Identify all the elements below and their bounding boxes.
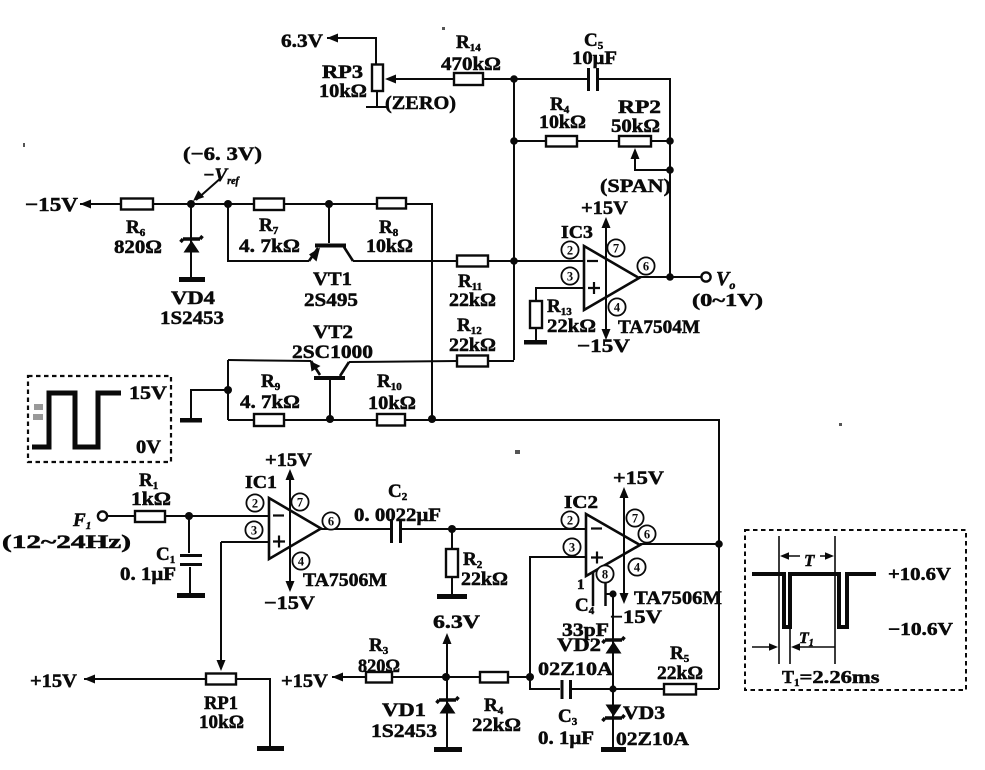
svg-text:2: 2: [252, 497, 258, 511]
svg-text:RP1: RP1: [204, 693, 238, 714]
svg-text:(SPAN): (SPAN): [600, 176, 671, 197]
svg-text:VD1: VD1: [382, 700, 426, 721]
svg-text:4: 4: [634, 561, 641, 575]
svg-text:2S495: 2S495: [304, 290, 358, 311]
svg-text:3: 3: [567, 270, 573, 284]
svg-text:8: 8: [602, 568, 608, 582]
svg-text:0V: 0V: [136, 437, 161, 458]
svg-text:IC3: IC3: [561, 222, 593, 242]
svg-text:6.3V: 6.3V: [281, 31, 323, 52]
svg-text:7: 7: [632, 512, 638, 526]
svg-text:−10.6V: −10.6V: [888, 619, 953, 639]
svg-text:(0~1V): (0~1V): [692, 290, 763, 311]
svg-text:RP2: RP2: [618, 97, 661, 118]
svg-text:3: 3: [251, 524, 257, 538]
svg-text:10kΩ: 10kΩ: [368, 393, 416, 414]
svg-text:TA7506M: TA7506M: [303, 570, 387, 591]
svg-text:22kΩ: 22kΩ: [657, 663, 703, 684]
svg-text:−15V: −15V: [577, 336, 630, 357]
svg-text:4: 4: [298, 555, 305, 569]
svg-text:7: 7: [297, 496, 303, 510]
svg-text:+15V: +15V: [265, 450, 312, 471]
svg-text:VD3: VD3: [623, 703, 665, 724]
svg-text:RP3: RP3: [322, 62, 363, 83]
svg-text:22kΩ: 22kΩ: [472, 715, 521, 736]
svg-text:TA7504M: TA7504M: [618, 317, 700, 338]
svg-text:02Z10A: 02Z10A: [616, 729, 689, 750]
svg-text:VT1: VT1: [313, 269, 352, 290]
svg-text:6.3V: 6.3V: [433, 612, 480, 633]
svg-text:10kΩ: 10kΩ: [366, 236, 413, 257]
svg-text:7: 7: [613, 242, 619, 256]
svg-text:820Ω: 820Ω: [114, 237, 162, 258]
svg-text:10kΩ: 10kΩ: [199, 712, 244, 733]
svg-text:22kΩ: 22kΩ: [547, 316, 596, 337]
svg-text:6: 6: [643, 260, 649, 274]
svg-text:10kΩ: 10kΩ: [319, 81, 367, 102]
svg-text:T: T: [804, 551, 815, 570]
svg-text:IC1: IC1: [245, 472, 277, 492]
svg-text:−15V: −15V: [610, 607, 662, 628]
svg-text:2: 2: [567, 514, 573, 528]
svg-text:1kΩ: 1kΩ: [131, 489, 171, 510]
svg-text:IC2: IC2: [564, 492, 598, 512]
svg-text:2: 2: [567, 244, 573, 258]
svg-text:(ZERO): (ZERO): [385, 93, 456, 114]
svg-text:+15V: +15V: [281, 671, 328, 692]
svg-text:+10.6V: +10.6V: [888, 564, 951, 584]
svg-text:4. 7kΩ: 4. 7kΩ: [239, 236, 300, 257]
svg-text:1S2453: 1S2453: [160, 308, 224, 329]
svg-text:0. 1μF: 0. 1μF: [538, 728, 594, 749]
svg-text:820Ω: 820Ω: [358, 656, 400, 677]
svg-text:50kΩ: 50kΩ: [611, 116, 660, 137]
svg-text:+15V: +15V: [30, 671, 77, 692]
svg-text:22kΩ: 22kΩ: [461, 569, 508, 590]
svg-text:22kΩ: 22kΩ: [449, 335, 496, 356]
svg-text:0. 1μF: 0. 1μF: [120, 564, 176, 585]
svg-text:−15V: −15V: [25, 194, 79, 216]
svg-text:−15V: −15V: [264, 593, 315, 614]
svg-text:1S2453: 1S2453: [371, 721, 437, 742]
svg-text:+15V: +15V: [613, 468, 664, 489]
svg-text:6: 6: [328, 515, 334, 529]
svg-text:2SC1000: 2SC1000: [292, 342, 373, 363]
svg-text:(12~24Hz): (12~24Hz): [2, 532, 131, 553]
svg-text:4: 4: [614, 301, 621, 315]
svg-text:(−6. 3V): (−6. 3V): [183, 144, 262, 165]
svg-text:02Z10A: 02Z10A: [538, 659, 613, 680]
svg-text:0. 0022μF: 0. 0022μF: [354, 505, 441, 526]
svg-text:22kΩ: 22kΩ: [449, 290, 496, 311]
svg-text:10kΩ: 10kΩ: [539, 112, 586, 133]
svg-text:4. 7kΩ: 4. 7kΩ: [240, 392, 300, 413]
svg-text:10μF: 10μF: [572, 48, 617, 69]
svg-text:1: 1: [577, 577, 585, 593]
svg-text:3: 3: [569, 541, 575, 555]
svg-text:+15V: +15V: [581, 198, 628, 219]
svg-text:6: 6: [644, 528, 650, 542]
svg-text:VT2: VT2: [313, 322, 353, 343]
svg-text:VD2: VD2: [557, 635, 601, 656]
svg-text:470kΩ: 470kΩ: [441, 54, 501, 75]
svg-text:15V: 15V: [129, 383, 167, 404]
svg-text:TA7506M: TA7506M: [634, 588, 722, 609]
svg-text:VD4: VD4: [171, 288, 216, 309]
